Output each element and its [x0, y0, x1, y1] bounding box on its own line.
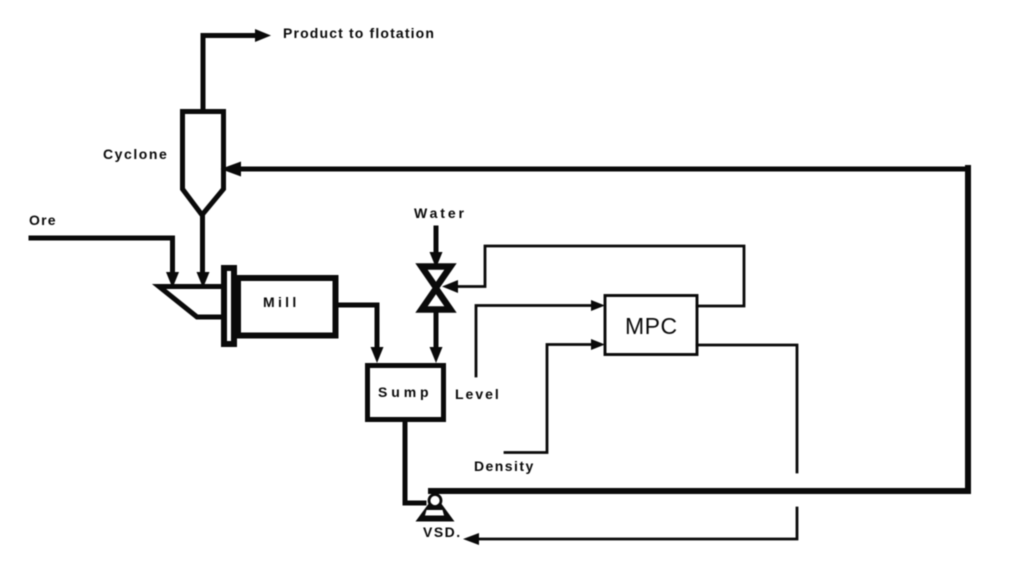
- wire: level signal to MPC: [476, 306, 596, 377]
- pump (VSD) triangle base: [416, 495, 455, 522]
- arrowhead: MPC signal into valve: [442, 280, 458, 293]
- label: Cyclone: [103, 146, 168, 162]
- MPC controller box: [605, 296, 697, 355]
- wire: MPC output to water valve: [456, 246, 744, 306]
- label: Ore: [29, 212, 57, 228]
- arrowhead: level into MPC: [591, 300, 605, 311]
- wire: valve outlet to sump: [434, 310, 439, 351]
- arrowhead: mill discharge into sump: [371, 347, 384, 363]
- sump: [368, 366, 444, 420]
- arrowhead: product to flotation: [255, 29, 271, 42]
- pump circle: [429, 495, 441, 507]
- wire: density signal to MPC: [505, 345, 596, 453]
- mill body: [238, 278, 336, 336]
- label: Level: [455, 386, 501, 402]
- wire: sump outlet to pump: [405, 422, 424, 503]
- label: Product to flotation: [283, 25, 435, 41]
- arrowhead: into cyclone right side: [221, 162, 242, 177]
- wire: MPC output to VSD (upper part, breaks at thick line): [697, 345, 797, 472]
- label: Water: [414, 205, 467, 221]
- arrowhead: water into valve: [430, 252, 443, 268]
- pump triangle white band: [425, 510, 444, 516]
- label: Density: [474, 458, 535, 474]
- arrowhead: underflow into chute: [197, 272, 210, 288]
- feed chute into mill: [159, 287, 224, 318]
- label: Mill: [263, 294, 300, 310]
- wire: mill discharge to sump: [339, 305, 377, 351]
- wire: pump discharge (thick recycle line): [431, 168, 968, 491]
- arrowhead: density into MPC: [591, 339, 605, 350]
- arrowhead: MPC signal into VSD: [463, 533, 479, 545]
- control valve (bowtie): [422, 267, 451, 288]
- wire: recycle return into cyclone (top horizontal): [240, 167, 966, 172]
- label: Sump: [378, 384, 433, 400]
- wire: product overflow line from cyclone top: [203, 36, 256, 112]
- label: MPC: [625, 313, 678, 340]
- arrowhead: ore into chute: [166, 272, 179, 288]
- arrowhead: water into sump: [430, 347, 443, 363]
- cyclone: [183, 112, 224, 216]
- wire: cyclone underflow: [200, 215, 205, 276]
- wire: water feed line: [434, 228, 439, 256]
- label: VSD: [423, 524, 462, 540]
- wire: ore feed line: [31, 238, 173, 276]
- mill end plate (trunnion): [224, 268, 234, 344]
- wire: MPC output to VSD (lower part): [474, 508, 797, 539]
